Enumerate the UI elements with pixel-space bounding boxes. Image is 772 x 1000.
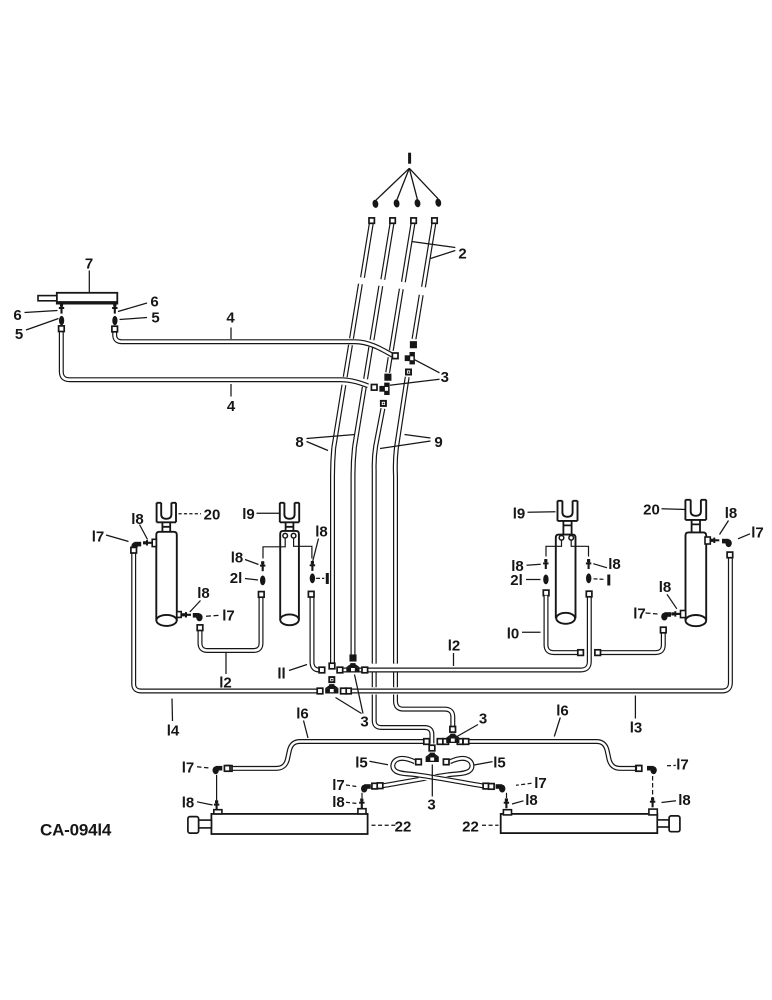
- tee 3 (lower): [384, 383, 389, 395]
- svg-text:2l: 2l: [230, 570, 243, 587]
- leader 3 to lower tee: [390, 379, 440, 385]
- leader 18: [140, 525, 148, 540]
- elbow 17 bottom-left: [213, 766, 219, 774]
- leader 17: [346, 785, 357, 787]
- hose 14 top cap: [131, 547, 137, 553]
- fitting 18 bottom-left: [216, 800, 218, 810]
- fitting 1 right: [310, 573, 315, 583]
- svg-text:l8: l8: [659, 579, 672, 596]
- hose 10 left cap: [543, 590, 549, 596]
- cylinder 20 (left) body: [156, 532, 177, 621]
- svg-text:l8: l8: [231, 550, 244, 567]
- item 1 fitting dots (4 swivel fittings): [372, 199, 379, 208]
- hose 11 top cap: [308, 591, 314, 597]
- leader 22 right: [482, 824, 499, 826]
- hose 2 (second, upper segment): [383, 219, 393, 280]
- svg-text:6: 6: [13, 307, 21, 324]
- svg-text:l7: l7: [534, 775, 547, 792]
- cylinder 22 (right) body: [501, 814, 658, 833]
- hose 9 (first) from upper tee: slant, vertical, bend to tee 3 bottom: [395, 377, 453, 726]
- svg-text:l3: l3: [630, 720, 643, 737]
- leader 5 left: [26, 319, 59, 331]
- hose 15 (left loop): [393, 758, 483, 785]
- manifold bracket 7: [57, 293, 118, 304]
- hose 8 second end cap above tee: [350, 655, 355, 660]
- leader 19 right: [528, 511, 556, 514]
- cylinder 20R bottom port: [681, 611, 686, 618]
- leader 17: [667, 764, 676, 766]
- svg-text:6: 6: [150, 294, 158, 311]
- svg-text:l7: l7: [222, 608, 235, 625]
- svg-text:3: 3: [360, 714, 368, 731]
- svg-text:20: 20: [204, 507, 221, 524]
- leader 18: [720, 521, 729, 535]
- hose 10 right cap: [661, 627, 667, 633]
- hose 4 lower start cap: [59, 326, 65, 332]
- tee bottom left cap: [416, 759, 422, 765]
- elbow 17 at hose 15 right end: [361, 785, 367, 793]
- svg-text:3: 3: [441, 369, 449, 386]
- leader 17: [646, 613, 658, 614]
- hose 8 first end cap: [329, 663, 335, 669]
- hose 2 (third, lower segment into tee 3): [388, 289, 402, 373]
- alignment line cyl19 right port: [294, 539, 312, 559]
- hose 9 (second) from lower tee: slant, vertical, bend right: [374, 409, 432, 744]
- cylinder 19 (right pair) neck: [563, 521, 573, 535]
- hose 15 (right loop): [382, 758, 472, 785]
- hose 2 (fourth, upper segment): [424, 219, 435, 287]
- leader 1: [594, 578, 606, 581]
- svg-text:3: 3: [427, 797, 435, 814]
- hose 16 break cap: [424, 739, 430, 745]
- cylinder 19 (right pair) clevis fork: [558, 501, 578, 521]
- cylinder 22 left rod: [199, 820, 212, 828]
- leader 10: [522, 631, 541, 633]
- tee 3 (on hose 11/12 line): [346, 667, 359, 672]
- svg-text:9: 9: [434, 434, 442, 451]
- elbow 17 cyl20R top: [725, 539, 731, 547]
- hose 8 (second) bend to vertical down to tee 3: [353, 447, 355, 655]
- leader 18: [197, 802, 213, 805]
- svg-text:l8: l8: [608, 556, 621, 573]
- svg-text:l2: l2: [448, 638, 461, 655]
- tee stub cap left: [443, 739, 449, 745]
- cylinder 20 left top port: [152, 539, 156, 546]
- tee 3 (on hose 13/14 line): [325, 688, 338, 693]
- cylinder 19 (right pair) body: [556, 535, 576, 619]
- cylinder 20R top port: [705, 537, 710, 544]
- leader 4 upper: [230, 328, 232, 340]
- crossing break: [419, 776, 448, 781]
- label 1 (fitting): [326, 573, 329, 584]
- leader 13: [634, 696, 636, 719]
- hose 9 second end cap: [429, 745, 435, 751]
- leader 3 to upper tee: [415, 360, 440, 373]
- fitting 18 at left-cyl right port: [361, 798, 363, 808]
- fitting below lower tee: [380, 400, 387, 407]
- alignment line right-cyl left port: [506, 793, 508, 798]
- leader 8 to second hose: [307, 435, 356, 439]
- leader 2 to fourth hose: [431, 251, 456, 259]
- alignment line elbow to port (right): [652, 776, 654, 798]
- leader 7: [88, 271, 90, 293]
- cylinder 22 right ports: [503, 810, 511, 815]
- hose 10 break cap left: [578, 650, 584, 656]
- leader 4 lower: [230, 384, 232, 397]
- fitting 6 (right, under manifold): [114, 304, 116, 314]
- hose 2 third end cap (into lower tee): [385, 375, 390, 380]
- cylinder 19 (left pair) neck: [285, 522, 294, 531]
- cylinder 22 right rod end: [669, 816, 680, 832]
- leader 17: [206, 615, 219, 616]
- cylinder 20 (right) clevis fork: [685, 500, 706, 520]
- hose 4 (upper) from manifold to tee 3: [115, 332, 393, 356]
- fitting 18 at cyl20 top port: [143, 542, 152, 544]
- leader 20 left: [179, 513, 202, 515]
- cylinder 22 right rod: [657, 820, 669, 827]
- leader 11: [289, 665, 307, 671]
- fitting below upper tee: [405, 369, 412, 376]
- leader 9 to fourth hose: [405, 435, 431, 439]
- alignment line cyl19R left port: [546, 541, 562, 557]
- leader 17: [516, 783, 532, 785]
- hose 14 from elbow down and right to tee 3: [134, 553, 318, 692]
- alignment line elbow to port: [216, 775, 218, 800]
- hose 8 (first) bend to vertical and down to tee: [333, 448, 334, 664]
- hose 13 start cap: [346, 688, 352, 694]
- tee 3 (on hose 16 line): [446, 738, 459, 743]
- label 1 (hose assembly callout): [408, 153, 411, 164]
- svg-text:l8: l8: [182, 795, 195, 812]
- leader 18: [593, 564, 607, 568]
- svg-text:l8: l8: [197, 585, 210, 602]
- leader 18: [512, 801, 524, 804]
- leader 17: [197, 767, 210, 768]
- cylinder 19 (left pair) body: [280, 531, 299, 620]
- cylinder 22 left rod end: [188, 817, 199, 834]
- tee right cap: [362, 667, 368, 673]
- fitting 18 bottom-right: [652, 797, 654, 807]
- hose 16 right caps: [457, 739, 463, 745]
- svg-text:l8: l8: [725, 505, 738, 522]
- svg-text:3: 3: [479, 711, 487, 728]
- leader 14: [171, 699, 174, 722]
- fitting 21 left: [260, 576, 265, 586]
- svg-text:l7: l7: [182, 760, 195, 777]
- hose 4 upper end cap: [392, 353, 398, 359]
- leader 15 right: [474, 762, 493, 765]
- svg-text:l2: l2: [219, 675, 232, 692]
- fitting 1 (right pair): [586, 573, 591, 583]
- svg-text:l8: l8: [678, 792, 691, 809]
- leader 20 right: [662, 508, 687, 511]
- hose 2 (third, upper segment): [403, 219, 413, 282]
- fitting 5 (left swivel): [59, 316, 64, 325]
- hose 11 from cyl19 down to tee 3: [312, 597, 320, 671]
- hose 16 (left) from elbow to tee: [231, 742, 425, 769]
- leader 19 left: [257, 512, 280, 514]
- svg-text:l8: l8: [525, 792, 538, 809]
- elbow 17 bottom-right: [650, 766, 656, 774]
- svg-text:22: 22: [462, 819, 479, 836]
- fitting 18 at cyl20 bottom: [182, 614, 191, 616]
- svg-text:l6: l6: [296, 706, 309, 723]
- hose 10 break cap right: [595, 650, 601, 656]
- hose 12 from tee 3 right to cyl 19R chain: [342, 597, 589, 670]
- svg-text:l8: l8: [332, 794, 345, 811]
- svg-text:l8: l8: [131, 511, 144, 528]
- leader 18: [313, 539, 319, 562]
- hose 2 (fourth, lower segment into tee 3): [414, 295, 421, 339]
- svg-text:2l: 2l: [510, 572, 523, 589]
- hose 9 first end cap: [450, 727, 456, 733]
- fitting 21 right: [543, 575, 548, 585]
- hose 4 upper start cap: [112, 326, 118, 332]
- svg-text:7: 7: [85, 256, 93, 273]
- leader 16 left: [304, 721, 309, 739]
- alignment line left-cyl right port: [361, 793, 363, 798]
- svg-text:l9: l9: [242, 506, 255, 523]
- leader 18: [190, 601, 201, 613]
- leader 3 to tee lower: [336, 698, 362, 714]
- leader 3 bottom: [431, 765, 433, 797]
- leader 6 left: [25, 311, 58, 313]
- cylinder 19 (left pair) clevis fork: [280, 503, 299, 523]
- fitting 18 at right-cyl left port: [505, 798, 507, 808]
- cylinder 20 (left) clevis fork: [157, 503, 176, 523]
- svg-text:l7: l7: [92, 529, 105, 546]
- svg-text:l5: l5: [355, 755, 368, 772]
- label 1 (fitting, right): [607, 575, 610, 586]
- elbow 17 cyl20R bottom: [661, 613, 667, 621]
- svg-text:l4: l4: [167, 723, 180, 740]
- svg-text:l7: l7: [676, 757, 689, 774]
- hose 16 cap right of elbow: [224, 766, 230, 772]
- fitting 18 cyl19R right: [588, 559, 590, 569]
- leader 3: [457, 725, 478, 737]
- cylinder 20 (left) neck: [162, 522, 171, 532]
- leader 12 left: [225, 653, 227, 674]
- tee left stub cap: [341, 688, 347, 694]
- svg-text:4: 4: [226, 310, 235, 327]
- svg-text:4: 4: [227, 398, 236, 415]
- fitting 18 cyl19 right: [311, 561, 313, 571]
- leader 17: [106, 535, 129, 542]
- hose 8 (first) slanted part: [334, 284, 361, 448]
- hose 12 top right cap: [586, 591, 592, 597]
- elbow 17 at cyl20 top: [131, 542, 137, 550]
- hose 4 lower end cap: [371, 385, 377, 391]
- cylinder 22 (left) body: [211, 814, 367, 834]
- cylinder 20 left bottom port: [177, 612, 181, 618]
- svg-text:20: 20: [643, 502, 660, 519]
- hose 10 from cyl19R chain down right to cyl20R elbow: [546, 596, 663, 653]
- svg-text:22: 22: [395, 819, 412, 836]
- svg-text:l5: l5: [493, 755, 506, 772]
- svg-text:2: 2: [458, 246, 466, 263]
- leader 22 left: [372, 824, 397, 826]
- fitting 6 (left, under manifold): [60, 304, 62, 314]
- alignment line cyl19 left port: [263, 539, 285, 559]
- leader 9 to third hose: [380, 441, 431, 449]
- leader 3 to tee upper: [355, 675, 364, 714]
- hose 4 (lower) from manifold to tee 3: [61, 332, 368, 386]
- elbow 17 at hose 15 left end: [499, 785, 505, 793]
- svg-text:l9: l9: [513, 506, 526, 523]
- fitting 18 cyl19R left: [545, 559, 547, 569]
- fitting 18 cyl20R bottom: [671, 613, 680, 615]
- hose 12 (left U) cyl20 bottom to cyl19 port: [200, 597, 261, 650]
- fitting 18 cyl20R top: [710, 539, 719, 541]
- hose 16 cap at tee left: [437, 739, 443, 745]
- leader 6 right: [118, 303, 147, 312]
- fitting under hose 8 first: [328, 676, 335, 683]
- svg-text:l8: l8: [315, 524, 328, 541]
- svg-text:5: 5: [15, 326, 23, 343]
- leader 2 to third hose: [412, 242, 456, 248]
- hose 12 left cap: [337, 667, 343, 673]
- cylinder 19R port circles: [559, 536, 564, 541]
- hose 13 from tee 3 right to elbow at cyl 20R: [351, 558, 731, 691]
- tee 3 (bottom, hose 15): [426, 757, 439, 762]
- hose 2 top end caps: [369, 218, 374, 223]
- hose 12 left U start cap: [197, 625, 203, 631]
- cylinder 19 port circles: [283, 533, 288, 538]
- leader 18: [662, 801, 677, 803]
- leader 21: [245, 579, 258, 581]
- svg-text:l0: l0: [507, 626, 520, 643]
- tee bottom right cap: [443, 759, 449, 765]
- leader 8 to first hose: [307, 442, 329, 451]
- fitting 5 (right swivel): [112, 316, 117, 325]
- cylinder 20 (right) neck: [691, 520, 701, 533]
- leader 5 right: [120, 318, 148, 320]
- leader 21: [526, 579, 541, 581]
- elbow 17 at cyl20 bottom: [196, 614, 202, 622]
- svg-text:ll: ll: [277, 666, 285, 683]
- svg-text:CA-094l4: CA-094l4: [40, 821, 112, 840]
- hose 16 (right) from tee to elbow: [458, 742, 636, 769]
- hose 11 end cap: [319, 667, 325, 673]
- leader fan from label 1 to four hose ends: [376, 168, 409, 200]
- hose 12 left U end cap: [259, 592, 265, 598]
- cylinder 20 (right) body: [686, 532, 707, 620]
- leader 17: [738, 534, 750, 539]
- svg-text:5: 5: [151, 310, 159, 327]
- svg-text:8: 8: [295, 434, 303, 451]
- leader 18: [527, 564, 541, 565]
- hose 2 fourth end cap (into tee): [411, 342, 416, 347]
- leader 18: [245, 560, 259, 565]
- svg-text:l7: l7: [633, 606, 646, 623]
- hose 8 (second) slanted part: [355, 286, 381, 447]
- hose 16 cap left of elbow: [636, 766, 642, 772]
- hose 13 top cap: [727, 552, 733, 558]
- hose 16 right end cap: [636, 766, 642, 772]
- svg-text:l7: l7: [751, 525, 764, 542]
- svg-text:l6: l6: [556, 703, 569, 720]
- hose 16 left segment to tee: [438, 739, 448, 744]
- leader 16 right: [554, 718, 560, 737]
- hose 2 (first, upper segment): [363, 219, 373, 278]
- svg-text:l7: l7: [332, 777, 345, 794]
- hose 15 left end caps: [483, 783, 489, 789]
- leader 1: [316, 577, 324, 579]
- fitting 18 cyl19 left: [262, 561, 264, 571]
- cylinder 22 left ports: [214, 810, 222, 814]
- tee 3 (upper): [410, 352, 415, 364]
- hose 16 left start cap: [226, 766, 232, 772]
- hose 14 end cap: [317, 688, 323, 694]
- leader 15 left: [370, 761, 389, 765]
- leader 18: [346, 802, 357, 803]
- alignment line cyl19R right port: [571, 541, 588, 557]
- leader 18: [667, 594, 677, 609]
- leader 12 right: [453, 653, 455, 666]
- hose 15 right end caps: [372, 783, 378, 789]
